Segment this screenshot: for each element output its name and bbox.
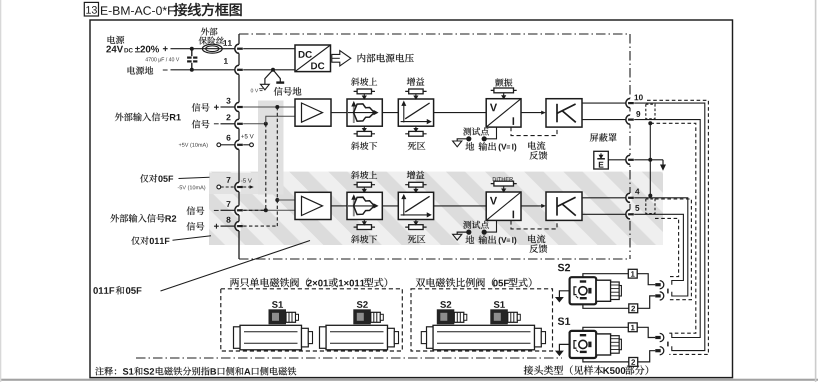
label 电流反馈 channel 2	[528, 235, 545, 244]
dashed parallel wire R1-/R2- (011F)	[265, 124, 267, 211]
label -5V(10mA)	[178, 185, 206, 190]
label 斜坡下 (ramp down) channel 2	[351, 235, 377, 243]
op-amp input amplifier A2	[295, 192, 331, 219]
connector dashed box pins 10/9	[646, 104, 655, 119]
flat grey band for 05F-only row	[209, 173, 268, 194]
-5V terminal circle	[217, 185, 221, 189]
op-amp input amplifier A1	[295, 99, 331, 126]
deadband potentiometer channel 1	[405, 126, 426, 136]
solenoid coil connector S1	[494, 301, 505, 308]
plug contact S2-2	[655, 294, 660, 297]
label 输出 (V=I) channel 2	[478, 235, 495, 244]
gain/deadband block channel 1	[398, 99, 433, 126]
label 外部保险丝 (external fuse)	[201, 28, 218, 36]
label 外部输入信号R2 (external input signal R2)	[110, 214, 164, 223]
wire: R2 signal- to pin 7	[221, 209, 236, 211]
connector S2 body	[596, 280, 610, 301]
label 仅对05F (only for 05F)	[140, 174, 157, 182]
pin 7 (signal -)	[235, 206, 243, 216]
label 死区 (dead zone) channel 2	[408, 235, 425, 243]
gain/deadband block channel 2	[398, 192, 433, 219]
label 信号 - (R2)	[187, 206, 205, 215]
wire: shield pin to ground	[634, 159, 663, 161]
label 输出 (V=I) channel 1	[478, 142, 495, 151]
dashed wire: pin 8 runs right	[243, 225, 277, 227]
capacitor C 4700uF/40V	[187, 49, 197, 70]
ramp-down potentiometer channel 2	[354, 220, 375, 230]
DC/DC converter U1	[295, 45, 331, 72]
pin 10	[626, 98, 634, 108]
label +5V(10mA)	[179, 143, 208, 148]
+5V reference terminal circle	[217, 143, 221, 147]
minus terminal sign	[163, 69, 168, 72]
wire: amplifier A2 to ramp block	[331, 205, 347, 207]
valve option box left (two single-solenoid valves)	[221, 289, 402, 351]
connector dashed box pins 4/5	[646, 199, 655, 214]
terminal box 1 of S1	[628, 323, 637, 332]
terminal box 1 of S2	[628, 269, 637, 278]
pin 9	[626, 115, 634, 125]
wire S1 terminal 2 to plug	[638, 351, 656, 362]
terminal bus vertical line	[238, 34, 240, 259]
pin 2	[235, 119, 243, 129]
internal supply voltage outline arrow	[332, 51, 351, 66]
label 信号地 (signal ground)	[274, 87, 302, 96]
outer frame	[90, 20, 733, 378]
V/I converter block channel 2	[486, 192, 521, 220]
wire: pin 1 to DC/DC	[243, 69, 295, 71]
dashed 011F overlay on R2- wire	[243, 209, 266, 211]
pin number 11	[223, 40, 231, 46]
valve option title 双电磁铁比例阀	[416, 278, 495, 287]
cable to S1: solid wire pin 10	[634, 103, 705, 351]
hatched background region (channel 2, 011F/05F option)	[209, 172, 663, 245]
pin number 7 upper	[226, 177, 230, 183]
wire with arrow: V/I to output stage K channel 2	[521, 205, 542, 207]
pin 7 (upper, -5V)	[235, 182, 243, 192]
wire S2 coil terminal 1	[583, 274, 628, 278]
current feedback dashed loop channel 1	[511, 127, 557, 136]
wire: pin 6 internal +5V arrow	[243, 144, 249, 146]
wire: pin 7 to amplifier A2	[243, 209, 295, 211]
wire: pin 3 to amplifier input	[243, 106, 295, 108]
callout line 011F	[173, 236, 212, 241]
module boundary dash-dot bottom	[239, 258, 630, 260]
solenoid connector S2 label	[558, 264, 570, 272]
wire: ramp to gain block channel 2	[382, 205, 398, 207]
wire: K1 to pin 10	[582, 102, 626, 104]
dither potentiometer channel 2	[491, 181, 517, 192]
callout line 05F	[179, 177, 210, 178]
label 斜坡下 (ramp down) channel 1	[351, 142, 377, 150]
dashed wire: -5V reference to pin 7	[221, 186, 236, 188]
cable to S1: solid wire pin 9	[634, 120, 700, 338]
node: R2- tap	[264, 208, 268, 212]
note 注释 S1/S2 solenoids	[95, 367, 116, 375]
+5V label	[241, 134, 254, 138]
wire: +5V reference to pin 6	[221, 144, 236, 146]
label 仅对011F (only for 011F)	[131, 236, 148, 244]
valve body	[320, 325, 388, 350]
wire: K2 to pin 5	[582, 213, 626, 215]
deadband potentiometer channel 2	[405, 220, 426, 230]
valve body	[234, 325, 302, 350]
label 颤振 (dither)	[495, 78, 512, 86]
label 屏蔽罩 (shield)	[590, 133, 617, 141]
wire S2 terminal 1 to plug	[637, 274, 655, 285]
pin 11	[235, 44, 243, 54]
cable to S2: solid wire pin 4	[634, 198, 688, 296]
grey vertical band around option dashed wires (channel 1)	[258, 101, 284, 195]
wire: K2 to pin 4	[582, 197, 626, 199]
ramp generator block (斜坡) channel 1	[347, 99, 382, 126]
label 死区 (dead zone) channel 1	[408, 142, 425, 150]
label 0V=	[251, 89, 259, 93]
solenoid coil connector S1	[272, 301, 283, 308]
node: capacitor bottom junction	[190, 68, 194, 72]
wire: to amplifier A2 upper input	[277, 199, 295, 201]
wire: R1- up to amplifier lower input	[266, 116, 295, 124]
ramp-up potentiometer channel 1	[354, 89, 375, 99]
label 信号 + (R1)	[192, 103, 210, 112]
wire: E box to pin	[608, 159, 626, 161]
solenoid coil connector S2	[440, 301, 451, 308]
pin number 1	[224, 58, 228, 64]
cable to S2: shield dashed outer	[655, 199, 691, 300]
cable to S2: shield dashed inner	[655, 218, 679, 276]
node: R1- parallel tap	[264, 122, 268, 126]
node: capacitor top junction	[190, 47, 194, 51]
shield bus vertical	[649, 123, 651, 195]
title index box 13	[84, 2, 98, 16]
wire: pin 2 to amplifier	[243, 123, 266, 125]
plug contact S1-2	[655, 349, 660, 352]
value label 4700uF/40V	[145, 57, 179, 62]
label 增益 (gain) channel 1	[407, 77, 425, 85]
connector S1 ribbed nut	[611, 336, 622, 354]
wire S2 coil terminal 2	[583, 304, 629, 308]
label 增益 (gain) channel 2	[407, 171, 425, 179]
dashed parallel wire R1+/R2+ (011F)	[276, 107, 278, 226]
terminal box 2 of S1	[629, 358, 638, 367]
pin number 2	[226, 114, 230, 120]
wire: gain block to V/I converter channel 2	[434, 205, 487, 207]
connector S1 body	[596, 334, 610, 355]
connector S2 ground lead	[559, 291, 569, 298]
node: signal ground tap on pin1 wire	[271, 68, 275, 72]
pin number 6	[226, 135, 230, 141]
gain potentiometer channel 2	[405, 182, 426, 192]
plug contact S1-1	[655, 336, 660, 339]
wire: amplifier A1 to ramp block	[331, 112, 347, 114]
-5V label	[241, 178, 252, 182]
plus terminal sign	[163, 46, 168, 51]
label 信号 - (R1)	[192, 120, 210, 129]
page bottom scan shadow	[0, 379, 818, 381]
lower separator dash-dot line	[136, 357, 562, 359]
connector S2 ribbed nut	[611, 282, 622, 300]
shield terminal E box	[594, 151, 609, 169]
label 011F和05F	[93, 287, 114, 294]
valve option title 两只单电磁铁阀	[230, 278, 309, 287]
wire: supply ground to pin 1	[171, 69, 236, 71]
output stage K1	[546, 99, 582, 127]
dither potentiometer channel 1	[491, 88, 517, 99]
connector S1 ground lead	[559, 344, 569, 351]
valve body	[427, 325, 535, 350]
note 接头类型 connector type	[524, 365, 603, 374]
connector S1 face	[570, 331, 597, 358]
pin number 7	[226, 201, 230, 207]
pin number 8	[226, 217, 230, 223]
test point wire channel 2	[487, 220, 497, 232]
label 电流反馈 channel 1	[528, 141, 545, 150]
test point dots channel 2	[482, 230, 487, 235]
solenoid coil connector S2	[357, 301, 368, 308]
V/I converter block channel 1	[486, 99, 521, 127]
test ground symbol channel 2	[457, 232, 469, 234]
fuse F external 保险丝	[202, 44, 222, 53]
wire: K1 to pin 9	[582, 119, 626, 121]
label 电源地 (supply ground)	[128, 66, 154, 74]
solenoid connector S1 label	[558, 317, 570, 325]
pin 8	[235, 221, 243, 231]
valve option box right (double-solenoid valve)	[411, 289, 553, 351]
cable to S1: shield dashed inner	[650, 123, 696, 333]
cable to S1: shield dashed outer	[647, 100, 708, 354]
label 测试点 channel 2	[463, 221, 489, 229]
wire: R2 signal+ to pin 8	[221, 225, 236, 227]
pin 3	[235, 102, 243, 112]
output stage K2	[546, 192, 582, 220]
label 地 channel 2	[466, 235, 475, 243]
signal ground symbols	[261, 70, 285, 90]
wire: signal- to pin 2	[221, 123, 236, 125]
ramp-up potentiometer channel 2	[354, 182, 375, 192]
dashed wire: pin 7 internal -5V arrow	[243, 186, 250, 188]
title text E-BM-AC-0*F wiring block diagram	[101, 6, 174, 15]
label 测试点 channel 1	[463, 127, 489, 135]
label DITHER	[493, 177, 513, 181]
wire S2 terminal 2 to plug	[638, 296, 656, 308]
label 内部电源电压 (internal supply voltage)	[358, 54, 414, 63]
terminal box 2 of S2	[629, 304, 638, 313]
cable tie mark S1	[667, 342, 669, 347]
wire S1 coil terminal 1	[583, 327, 628, 331]
module boundary dash-dot top	[239, 33, 630, 35]
node: amplifier A2 + input	[275, 198, 279, 202]
plug contact S2-1	[655, 283, 660, 286]
chassis ground arrow	[662, 160, 664, 166]
shield pin	[626, 155, 634, 165]
wire S1 coil terminal 2	[583, 358, 629, 362]
wire: ramp to gain block channel 1	[382, 112, 398, 114]
wire: gain block to V/I converter channel 1	[434, 112, 487, 114]
cable to S2: solid wire pin 5	[634, 214, 683, 284]
callout line 011F and 05F	[161, 241, 311, 292]
wire: signal+ to pin 3	[221, 106, 236, 108]
gain potentiometer channel 1	[405, 89, 426, 99]
label 信号 + (R2)	[187, 222, 205, 231]
wire S1 terminal 1 to plug	[637, 327, 655, 337]
pin 6	[235, 140, 243, 150]
node: R1+ parallel tap	[275, 105, 279, 109]
wire: +24V supply to fuse and pin 11	[171, 48, 203, 50]
pin number 3	[226, 98, 230, 104]
label 斜坡上 (ramp up) channel 1	[351, 78, 377, 86]
label 外部输入信号R1 (external input signal R1)	[115, 113, 169, 122]
label 24VDC +/-20%	[106, 46, 123, 53]
ramp generator block (斜坡) channel 2	[347, 192, 382, 219]
label 电源 (power supply)	[108, 36, 125, 44]
label 地 channel 1	[466, 142, 475, 150]
test ground symbol channel 1	[457, 139, 469, 141]
current feedback dashed loop channel 2	[511, 220, 557, 229]
wire with arrow: V/I to output stage K channel 1	[521, 112, 542, 114]
wire: pin 11 to DC/DC	[243, 48, 295, 50]
pin 5	[626, 210, 634, 220]
cable tie mark S2	[667, 289, 669, 294]
label 斜坡上 (ramp up) channel 2	[351, 171, 377, 179]
module boundary dash-dot right	[629, 34, 631, 259]
connector S2 face	[570, 277, 597, 304]
test point dots channel 1	[482, 136, 487, 141]
pin 4	[626, 193, 634, 203]
ramp-down potentiometer channel 1	[354, 126, 375, 136]
test point wire channel 1	[487, 127, 497, 139]
node: shield junction	[648, 158, 652, 162]
pin 1	[235, 65, 243, 75]
